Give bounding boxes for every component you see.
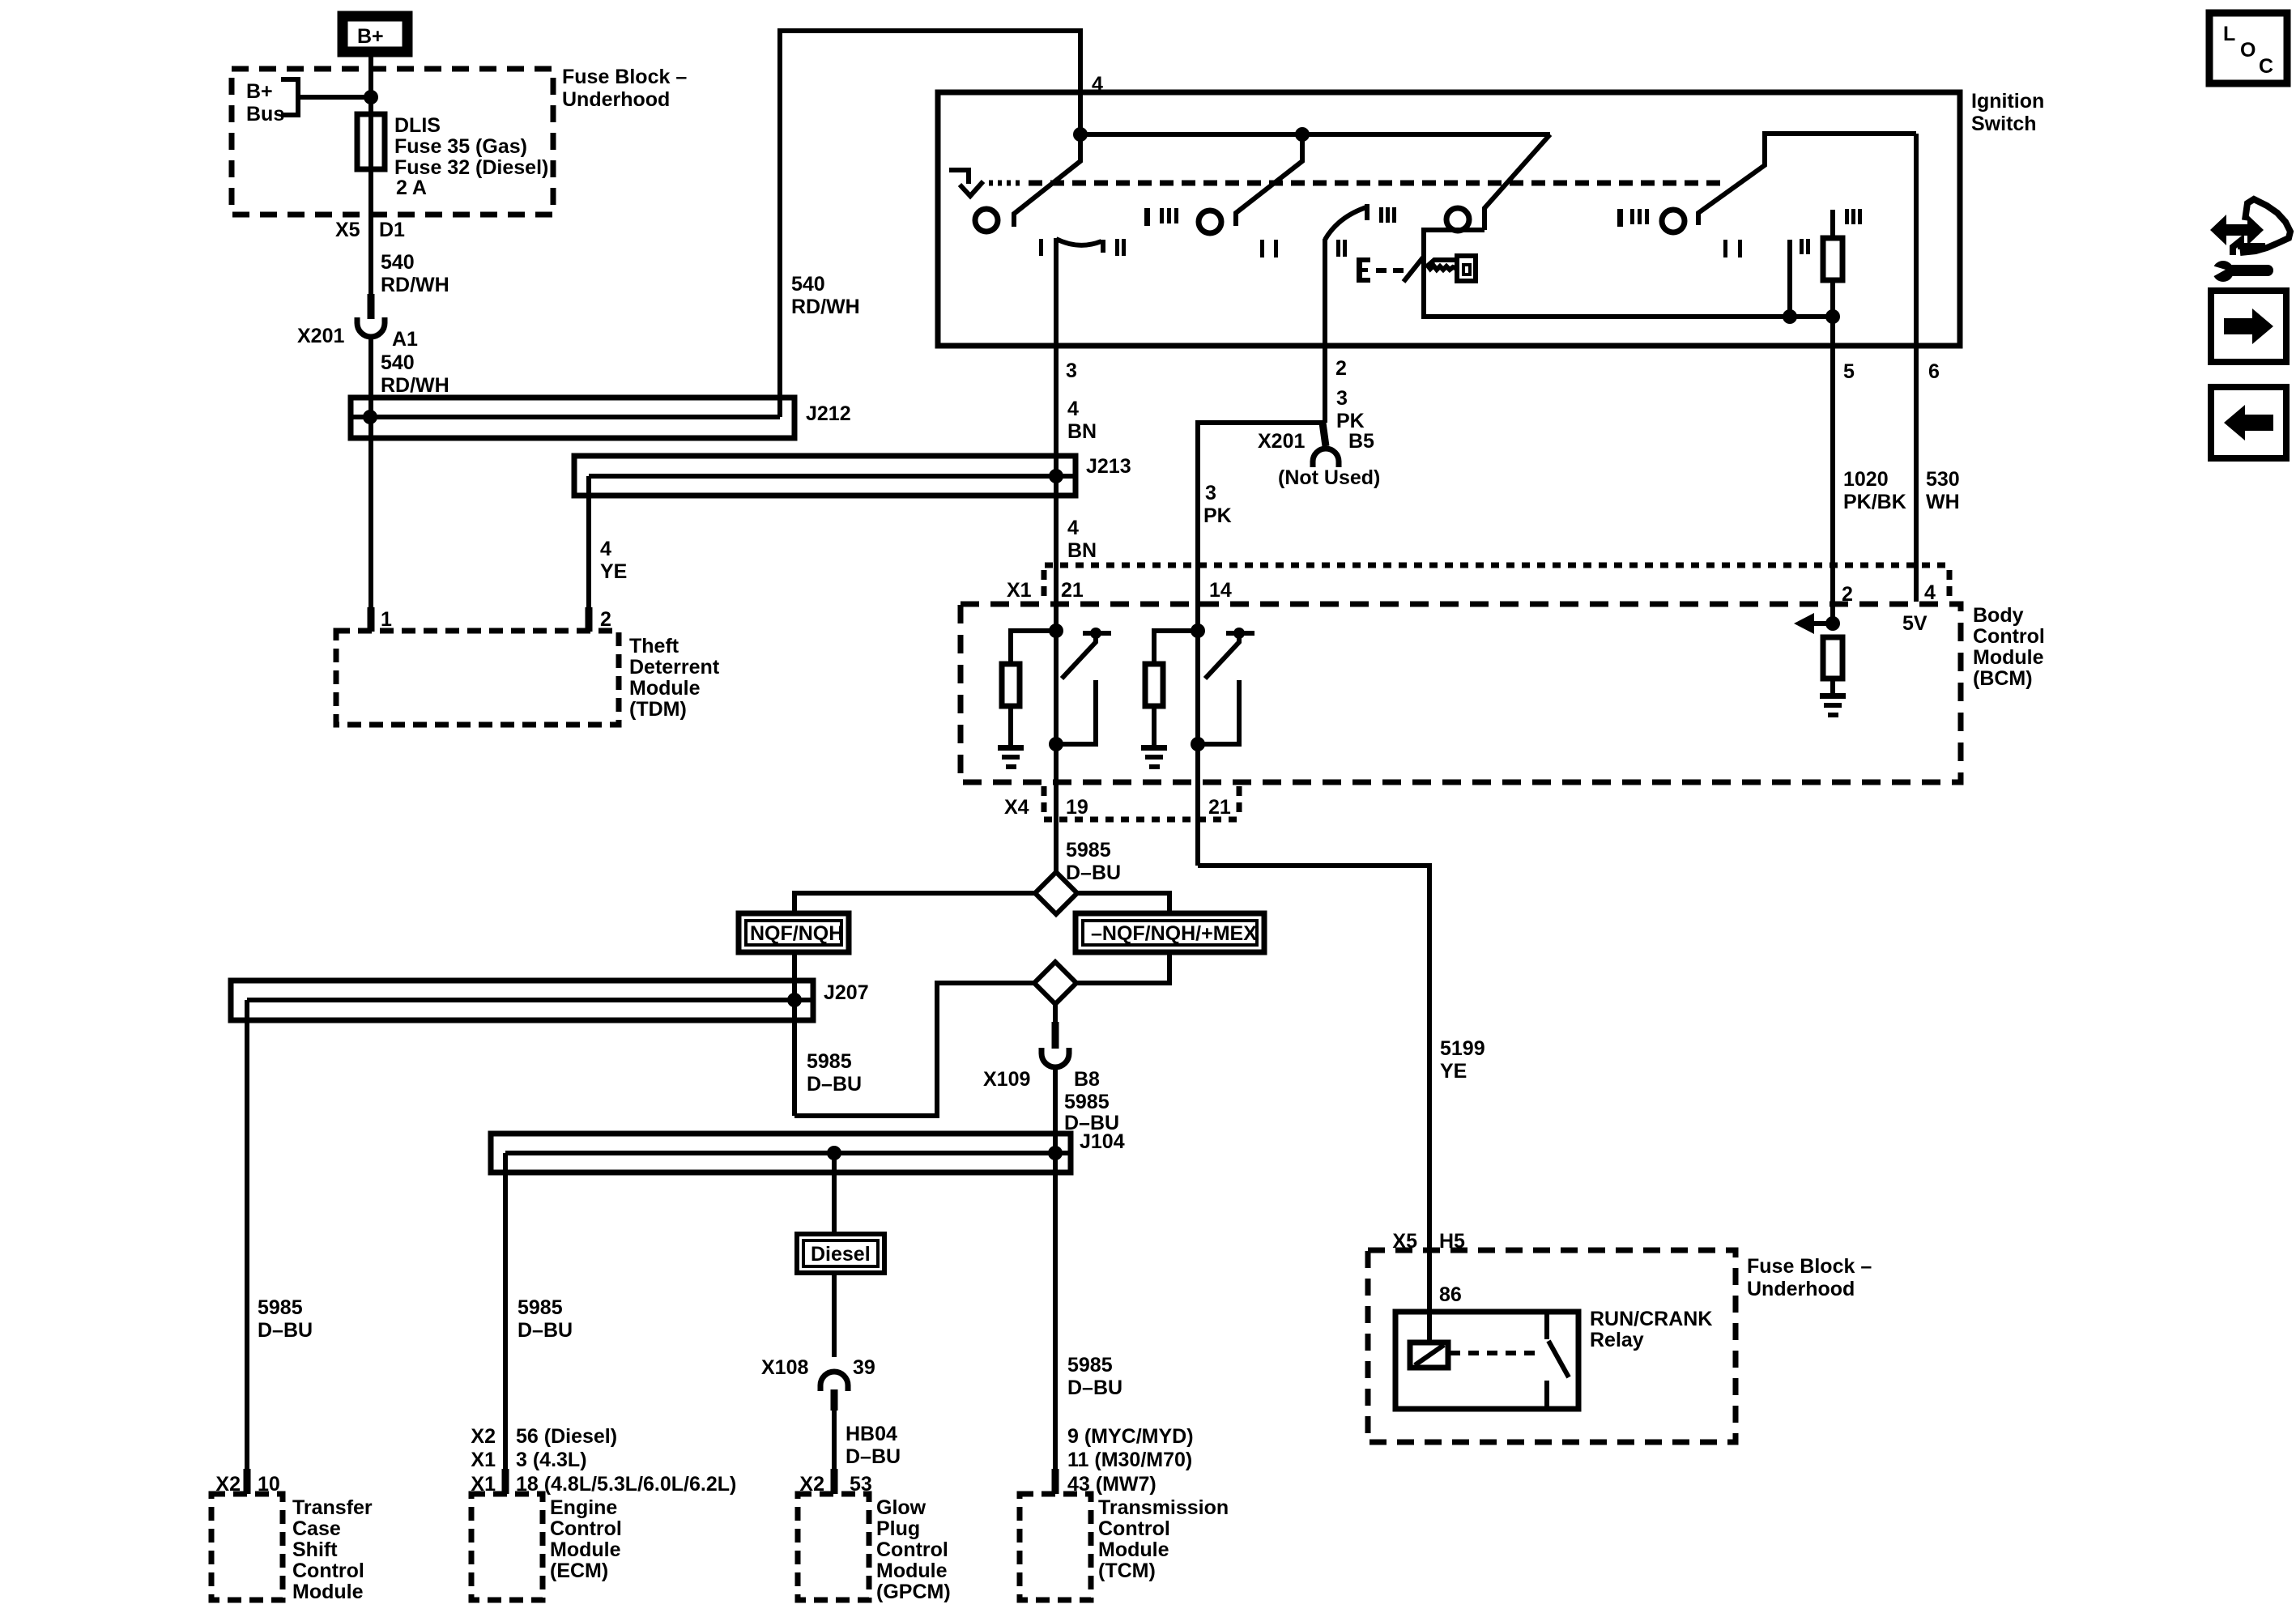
- svg-text:Plug: Plug: [876, 1517, 920, 1540]
- label 3 PK wire2: [1335, 357, 1365, 432]
- svg-text:C: C: [2259, 55, 2273, 78]
- resistor BCM R2: [1145, 631, 1198, 745]
- label 530 WH: [1926, 468, 1960, 513]
- wire 5 drop: [1830, 317, 1835, 623]
- box -NQF/NQH/+MEX: [1076, 913, 1264, 952]
- svg-text:Fuse Block –: Fuse Block –: [1747, 1255, 1872, 1278]
- S2 contact: [1199, 211, 1221, 233]
- svg-text:21: 21: [1208, 796, 1231, 819]
- B+ terminal box: [343, 16, 407, 52]
- svg-text:3: 3: [1205, 482, 1216, 504]
- svg-text:X4: X4: [1004, 796, 1029, 819]
- pin row transfer case: [215, 1473, 279, 1496]
- svg-text:2: 2: [600, 608, 611, 631]
- S4 position II marks: [1800, 239, 1804, 254]
- svg-text:4: 4: [1067, 517, 1079, 539]
- TDM pins: [368, 607, 375, 632]
- svg-text:D–BU: D–BU: [258, 1319, 313, 1342]
- svg-text:2 A: 2 A: [396, 177, 427, 199]
- svg-text:RD/WH: RD/WH: [381, 374, 449, 397]
- pin row X5 D1: [335, 219, 405, 241]
- box NQF/NQH: [739, 913, 849, 952]
- node BCM pin21 top: [1049, 623, 1063, 638]
- relay link dashed: [1450, 1351, 1540, 1355]
- key switch wiper: [1325, 207, 1366, 240]
- label 5985 D-BU TCM: [1067, 1354, 1122, 1399]
- svg-text:Control: Control: [550, 1517, 622, 1540]
- connector X108 39: [761, 1356, 875, 1411]
- glow plug control module box: [798, 1494, 869, 1600]
- ground BCM G3: [1820, 693, 1846, 717]
- svg-text:Fuse Block –: Fuse Block –: [562, 66, 687, 88]
- B+ Bus label: [246, 80, 284, 126]
- relay RUN/CRANK box: [1395, 1312, 1578, 1409]
- svg-text:5985: 5985: [807, 1050, 852, 1073]
- svg-text:Module: Module: [550, 1538, 621, 1561]
- label 5985 D-BU X109: [1064, 1091, 1119, 1134]
- svg-text:Diesel: Diesel: [811, 1243, 871, 1266]
- svg-text:B+: B+: [246, 80, 273, 103]
- wire 2 corner to pin14 drop: [1198, 423, 1323, 866]
- icon LOC box: [2209, 13, 2287, 83]
- svg-text:56 (Diesel): 56 (Diesel): [516, 1425, 617, 1448]
- svg-text:14: 14: [1209, 579, 1232, 602]
- label 540 RD/WH right riser: [791, 273, 860, 318]
- node bracket 5: [1825, 309, 1840, 324]
- relay switch: [1547, 1312, 1569, 1409]
- svg-text:Control: Control: [1973, 625, 2045, 648]
- svg-text:X5: X5: [335, 219, 360, 241]
- engine control module box: [471, 1494, 543, 1600]
- svg-text:X201: X201: [1258, 430, 1305, 453]
- label 4 BN lower: [1067, 517, 1097, 562]
- E glyph: [1357, 257, 1404, 283]
- svg-text:Relay: Relay: [1590, 1329, 1644, 1351]
- svg-text:A1: A1: [392, 328, 418, 351]
- S4 position I I marks: [1723, 240, 1727, 257]
- key switch blade: [1404, 257, 1423, 282]
- S4 position I III marks: [1617, 209, 1623, 227]
- theft deterrent module box: [336, 631, 619, 725]
- svg-text:X1: X1: [1007, 579, 1032, 602]
- svg-text:NQF/NQH: NQF/NQH: [750, 922, 843, 945]
- wire X108 to GPCM: [832, 1411, 837, 1470]
- svg-text:6: 6: [1928, 360, 1940, 383]
- wire fuse to X201: [368, 169, 373, 296]
- svg-text:(ECM): (ECM): [550, 1560, 608, 1582]
- wire to MEX box: [1077, 893, 1169, 913]
- label 5985 D-BU transfer: [258, 1296, 313, 1342]
- B+ Bus bracket: [281, 79, 298, 115]
- svg-text:3: 3: [1336, 387, 1348, 410]
- wire internal feed bus: [1080, 132, 1550, 137]
- switch S1 arm: [1014, 134, 1080, 227]
- svg-text:PK/BK: PK/BK: [1843, 491, 1906, 513]
- svg-text:Transfer: Transfer: [292, 1496, 373, 1519]
- svg-text:Control: Control: [1098, 1517, 1170, 1540]
- svg-text:O: O: [2240, 39, 2256, 62]
- wire bus tap: [298, 95, 371, 100]
- box Diesel: [797, 1234, 884, 1273]
- svg-text:(BCM): (BCM): [1973, 667, 2033, 690]
- svg-text:(TCM): (TCM): [1098, 1560, 1156, 1582]
- label 5199 YE: [1440, 1037, 1485, 1083]
- svg-text:4: 4: [1924, 581, 1936, 604]
- wire 2 PK drop: [1323, 239, 1327, 423]
- svg-text:WH: WH: [1926, 491, 1960, 513]
- node BCM pin14 top: [1191, 623, 1205, 638]
- key icon: [1428, 256, 1476, 281]
- node feed S2: [1295, 127, 1310, 142]
- svg-text:Module: Module: [292, 1581, 364, 1603]
- svg-text:(Not Used): (Not Used): [1278, 466, 1380, 489]
- svg-text:D–BU: D–BU: [1067, 1377, 1122, 1399]
- svg-text:43 (MW7): 43 (MW7): [1067, 1473, 1157, 1496]
- module pins thick: [244, 1469, 251, 1494]
- svg-text:RD/WH: RD/WH: [381, 274, 449, 296]
- S1 wiper arc: [1056, 239, 1101, 245]
- svg-text:Control: Control: [876, 1538, 948, 1561]
- wire to NQF box: [794, 893, 1035, 913]
- resistor BCM R3: [1823, 637, 1842, 693]
- svg-text:X108: X108: [761, 1356, 808, 1379]
- wire X201 to TDM pin1: [368, 337, 373, 609]
- fuse block underhood dashed box: [232, 69, 553, 215]
- icon hand wrench: [2209, 199, 2290, 282]
- label 5985 D-BU pin19: [1066, 839, 1121, 884]
- ground BCM G2: [1141, 745, 1167, 769]
- wire J207 to transfer case: [245, 1000, 249, 1470]
- svg-text:39: 39: [853, 1356, 875, 1379]
- svg-text:B5: B5: [1348, 430, 1374, 453]
- ignition switch box: [938, 92, 1960, 346]
- svg-text:5985: 5985: [1067, 1354, 1113, 1377]
- svg-text:Bus: Bus: [246, 103, 284, 126]
- connector X109 B8: [983, 1022, 1100, 1091]
- diamond splice D2: [1034, 962, 1076, 1004]
- pin rows TCM: [1067, 1425, 1194, 1496]
- svg-text:1020: 1020: [1843, 468, 1889, 491]
- resistor ignition: [1823, 238, 1842, 280]
- svg-text:5: 5: [1843, 360, 1855, 383]
- splice J207: [231, 981, 869, 1020]
- svg-text:5199: 5199: [1440, 1037, 1485, 1060]
- svg-text:D–BU: D–BU: [1066, 862, 1121, 884]
- svg-text:Switch: Switch: [1971, 113, 2037, 135]
- svg-text:X1: X1: [471, 1449, 496, 1471]
- icon arrow left box: [2211, 387, 2286, 458]
- svg-text:540: 540: [381, 351, 415, 374]
- svg-text:530: 530: [1926, 468, 1960, 491]
- svg-text:540: 540: [381, 251, 415, 274]
- svg-text:5V: 5V: [1902, 612, 1928, 635]
- S4 contact: [1662, 210, 1685, 232]
- label 5985 D-BU ECM: [518, 1296, 573, 1342]
- S3 step link: [1424, 230, 1834, 317]
- svg-text:RUN/CRANK: RUN/CRANK: [1590, 1308, 1712, 1330]
- svg-text:18 (4.8L/5.3L/6.0L/6.2L): 18 (4.8L/5.3L/6.0L/6.2L): [516, 1473, 736, 1496]
- label 1020 PK/BK: [1843, 468, 1906, 513]
- label 540 RD/WH below X201: [381, 351, 449, 397]
- svg-text:D–BU: D–BU: [807, 1073, 862, 1096]
- label 4 YE: [600, 538, 627, 583]
- svg-text:3: 3: [1066, 360, 1077, 382]
- switch S1 contact: [975, 209, 998, 232]
- node feed S1: [1073, 127, 1088, 142]
- pin row GPCM: [799, 1473, 871, 1496]
- label 3 PK drop: [1203, 482, 1232, 527]
- S4 III feed line: [1830, 210, 1835, 238]
- svg-text:Fuse 35 (Gas): Fuse 35 (Gas): [394, 135, 527, 158]
- svg-text:J104: J104: [1080, 1130, 1125, 1153]
- wire B+ to fuse: [368, 57, 373, 114]
- svg-text:L: L: [2223, 23, 2235, 45]
- label 4 BN upper: [1067, 398, 1097, 443]
- svg-text:Underhood: Underhood: [562, 88, 670, 111]
- svg-text:(GPCM): (GPCM): [876, 1581, 951, 1603]
- svg-text:D–BU: D–BU: [518, 1319, 573, 1342]
- svg-text:21: 21: [1061, 579, 1084, 602]
- svg-text:Theft: Theft: [629, 635, 679, 657]
- svg-text:540: 540: [791, 273, 825, 296]
- svg-text:Engine: Engine: [550, 1496, 617, 1519]
- svg-text:–NQF/NQH/+MEX: –NQF/NQH/+MEX: [1091, 922, 1257, 945]
- svg-text:4: 4: [1067, 398, 1079, 420]
- node BCM pin2: [1825, 616, 1840, 631]
- svg-text:2: 2: [1335, 357, 1347, 380]
- svg-text:3 (4.3L): 3 (4.3L): [516, 1449, 587, 1471]
- wire NQF to J207: [792, 952, 797, 1116]
- svg-text:D1: D1: [379, 219, 405, 241]
- transmission control module box: [1020, 1494, 1091, 1600]
- svg-text:Body: Body: [1973, 604, 2024, 627]
- relay coil: [1410, 1343, 1448, 1368]
- svg-text:(TDM): (TDM): [629, 698, 687, 721]
- svg-text:1: 1: [381, 608, 392, 631]
- svg-text:PK: PK: [1336, 410, 1365, 432]
- wire 6 drop: [1914, 134, 1919, 602]
- wire J104 to ECM: [503, 1153, 508, 1470]
- svg-text:86: 86: [1439, 1283, 1462, 1306]
- svg-text:J213: J213: [1086, 455, 1131, 478]
- label X201 B5: [1258, 430, 1374, 453]
- svg-text:BN: BN: [1067, 420, 1097, 443]
- svg-text:BN: BN: [1067, 539, 1097, 562]
- svg-text:5985: 5985: [1066, 839, 1111, 862]
- svg-text:Ignition: Ignition: [1971, 90, 2044, 113]
- wire 3 BN drop: [1054, 238, 1059, 872]
- label fuse DLIS: [394, 114, 548, 199]
- switch S3 arm from bus: [1485, 134, 1550, 230]
- svg-text:Case: Case: [292, 1517, 341, 1540]
- S4 position III marks: [1845, 209, 1849, 224]
- S3 contact: [1446, 208, 1469, 231]
- svg-text:5985: 5985: [518, 1296, 563, 1319]
- node BCM pin21b bottom: [1191, 737, 1205, 751]
- transfer case shift control module box: [211, 1494, 283, 1600]
- switch S2 arm: [1236, 134, 1302, 226]
- key position III marks: [1379, 207, 1383, 223]
- S2 position I III marks: [1144, 208, 1150, 226]
- splice J213: [574, 455, 1131, 496]
- svg-text:5985: 5985: [258, 1296, 303, 1319]
- switch S4 arm: [1698, 134, 1916, 225]
- wire 4 YE to TDM pin2: [586, 476, 591, 609]
- icon arrow right box: [2211, 291, 2286, 362]
- S2 position I I marks: [1260, 240, 1264, 257]
- svg-text:19: 19: [1066, 796, 1088, 819]
- svg-text:Fuse 32 (Diesel): Fuse 32 (Diesel): [394, 156, 548, 179]
- label 540 RD/WH: [381, 251, 449, 296]
- svg-text:4: 4: [600, 538, 611, 560]
- svg-text:Transmission: Transmission: [1098, 1496, 1229, 1519]
- svg-text:YE: YE: [1440, 1060, 1467, 1083]
- diamond splice D1: [1035, 872, 1077, 914]
- svg-text:5985: 5985: [1064, 1091, 1110, 1113]
- arrow BCM pin2: [1794, 613, 1833, 634]
- connector row X4: [1004, 786, 1239, 819]
- svg-text:Module: Module: [1098, 1538, 1169, 1561]
- svg-text:Shift: Shift: [292, 1538, 338, 1561]
- wire diamond2 left loop: [794, 983, 1034, 1116]
- wire Diesel to X108: [832, 1273, 837, 1357]
- svg-text:Underhood: Underhood: [1747, 1278, 1855, 1300]
- label Fuse Block Underhood: [562, 66, 687, 111]
- S4 contact II line: [1787, 240, 1792, 317]
- svg-text:Control: Control: [292, 1560, 364, 1582]
- ground BCM G1: [998, 745, 1024, 769]
- svg-text:DLIS: DLIS: [394, 114, 441, 137]
- node bracket II: [1783, 309, 1797, 324]
- wire diamond2 down: [1053, 1004, 1058, 1023]
- S1 position II marks: [1115, 239, 1119, 256]
- svg-text:Deterrent: Deterrent: [629, 656, 720, 679]
- connector X201 B5 stub: [1323, 423, 1326, 446]
- wire 5199 YE run: [1198, 866, 1429, 1343]
- fuse block underhood 2 dashed box: [1368, 1250, 1736, 1442]
- position travel dashed line: [989, 181, 1024, 186]
- svg-text:B+: B+: [357, 25, 384, 48]
- svg-text:9 (MYC/MYD): 9 (MYC/MYD): [1067, 1425, 1194, 1448]
- svg-text:B8: B8: [1074, 1068, 1100, 1091]
- pin rows ECM: [471, 1425, 736, 1496]
- splice J104: [491, 1130, 1125, 1172]
- wire J104 to Diesel box: [832, 1153, 837, 1234]
- svg-text:HB04: HB04: [846, 1423, 897, 1445]
- svg-text:X109: X109: [983, 1068, 1030, 1091]
- svg-text:D–BU: D–BU: [846, 1445, 901, 1468]
- svg-text:J212: J212: [806, 402, 851, 425]
- svg-text:Module: Module: [876, 1560, 948, 1582]
- ignition pin labels: [1066, 360, 1940, 383]
- S1 position I mark: [1039, 239, 1043, 256]
- svg-text:PK: PK: [1203, 504, 1232, 527]
- switch BCM S1: [1056, 628, 1111, 744]
- svg-text:11 (M30/M70): 11 (M30/M70): [1067, 1449, 1192, 1471]
- svg-text:RD/WH: RD/WH: [791, 296, 860, 318]
- wire X109 to TCM: [1053, 1067, 1058, 1470]
- label 5985 D-BU J207: [807, 1050, 862, 1096]
- node BCM pin19 bottom: [1049, 737, 1063, 751]
- svg-text:Module: Module: [629, 677, 701, 700]
- fuse DLIS: [357, 114, 385, 169]
- connector X201 B5 cup: [1313, 449, 1339, 467]
- pin row X5 H5: [1392, 1230, 1465, 1253]
- svg-text:J207: J207: [824, 981, 869, 1004]
- svg-text:X2: X2: [471, 1425, 496, 1448]
- svg-text:YE: YE: [600, 560, 627, 583]
- key position II marks: [1336, 240, 1340, 257]
- body control module box: [961, 604, 1961, 782]
- node bus tap junction: [364, 90, 378, 104]
- connector row X1: [1007, 565, 1949, 606]
- svg-text:Module: Module: [1973, 646, 2044, 669]
- wire 540 riser to top: [780, 31, 1080, 417]
- svg-text:Glow: Glow: [876, 1496, 926, 1519]
- connector X201 A1 inline: [297, 294, 418, 351]
- label HB04 D-BU: [846, 1423, 901, 1468]
- park position symbol: [949, 170, 969, 184]
- splice J212: [351, 398, 851, 438]
- switch BCM S2: [1198, 628, 1254, 744]
- resistor BCM R1: [1002, 631, 1056, 745]
- svg-text:X201: X201: [297, 325, 344, 347]
- wire MEX box to diamond2: [1077, 952, 1169, 983]
